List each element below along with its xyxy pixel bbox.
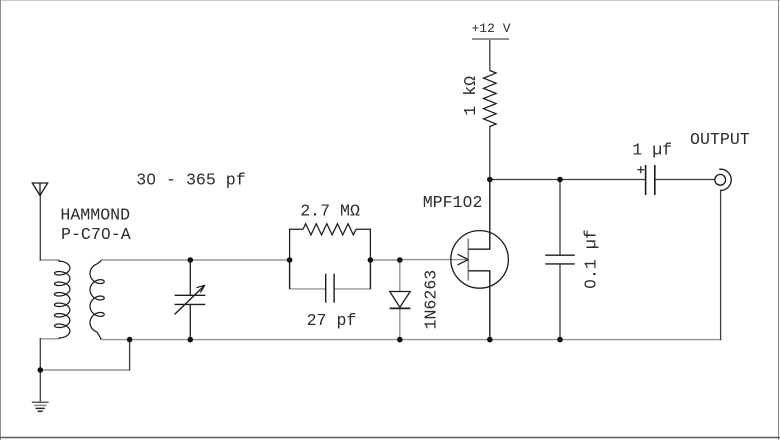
wire 1uf to output jack [655, 179, 715, 181]
node tank-top [188, 257, 194, 263]
wire ground run [40, 369, 129, 371]
zero glyph dot patches [149, 176, 153, 180]
node bypass-top [557, 177, 563, 183]
node RC-right [368, 257, 374, 263]
node drain [487, 177, 493, 183]
wire top rail tank to RC left node [190, 259, 289, 261]
power +12V bar [472, 38, 509, 40]
transformer T1 secondary coil [90, 260, 104, 340]
svg-text:27 pf: 27 pf [307, 311, 357, 330]
capacitor C4 1uf polarized [637, 165, 655, 195]
resistor R1 2.7 Mohm [290, 224, 371, 260]
wire diode node to JFET gate [400, 259, 469, 261]
wire secondary top to top rail [102, 259, 191, 261]
svg-text:+12 V: +12 V [472, 21, 511, 36]
svg-text:1 µf: 1 µf [632, 141, 672, 160]
wire secondary bottom riser [129, 340, 131, 370]
wire bottom rail [102, 339, 721, 341]
wire 27pf bottom left [290, 288, 326, 290]
node RC-left [287, 257, 293, 263]
wire drain node to bypass node [490, 179, 560, 181]
node secondary-bottom [127, 337, 133, 343]
svg-text:P-C70-A: P-C70-A [61, 225, 131, 244]
border frame (decorative) [0, 0, 780, 2]
svg-text:HAMMOND: HAMMOND [60, 206, 130, 225]
node ground-left [38, 367, 44, 373]
output jack J1 [715, 169, 731, 190]
wire 0.1uf branch top [559, 180, 561, 256]
wire diode anode lead [399, 260, 401, 292]
capacitor C2 27pf [290, 260, 371, 303]
resistor R2 1 kohm [484, 71, 497, 127]
wire primary bottom lead [40, 338, 58, 340]
wire antenna lead down [39, 196, 41, 261]
transformer T1 primary coil [55, 260, 70, 339]
svg-text:1N6263: 1N6263 [421, 270, 440, 330]
wire 27pf bottom right [334, 288, 370, 290]
antenna [32, 183, 47, 196]
wire RC right node to diode node [370, 259, 399, 261]
wire 0.1uf branch bottom [559, 264, 561, 340]
svg-text:OUTPUT: OUTPUT [690, 130, 750, 149]
node diode-top [397, 257, 403, 263]
svg-text:2.7 MΩ: 2.7 MΩ [300, 201, 360, 220]
transistor Q1 MPF102 JFET [451, 180, 509, 340]
node diode-bottom [397, 337, 403, 343]
node source-bottom [487, 337, 493, 343]
svg-text:MPF102: MPF102 [423, 193, 483, 212]
ground [32, 402, 49, 411]
wire resistor to drain node [489, 127, 491, 180]
node bypass-bottom [557, 337, 563, 343]
diode D1 1N6263 [390, 292, 411, 309]
wire +12V to resistor [489, 40, 491, 71]
wire bypass node to 1uf [560, 179, 645, 181]
svg-text:1 kΩ: 1 kΩ [461, 76, 480, 116]
svg-text:0.1 µf: 0.1 µf [582, 229, 601, 289]
wire primary top lead [40, 259, 58, 261]
variable capacitor C1 30-365pf [175, 260, 206, 340]
capacitor C3 0.1uf [545, 255, 575, 264]
wire diode cathode lead [399, 308, 401, 339]
wire primary bottom to ground [39, 339, 41, 402]
wire jack to bottom rail [720, 190, 722, 339]
node tank-bottom [188, 337, 194, 343]
